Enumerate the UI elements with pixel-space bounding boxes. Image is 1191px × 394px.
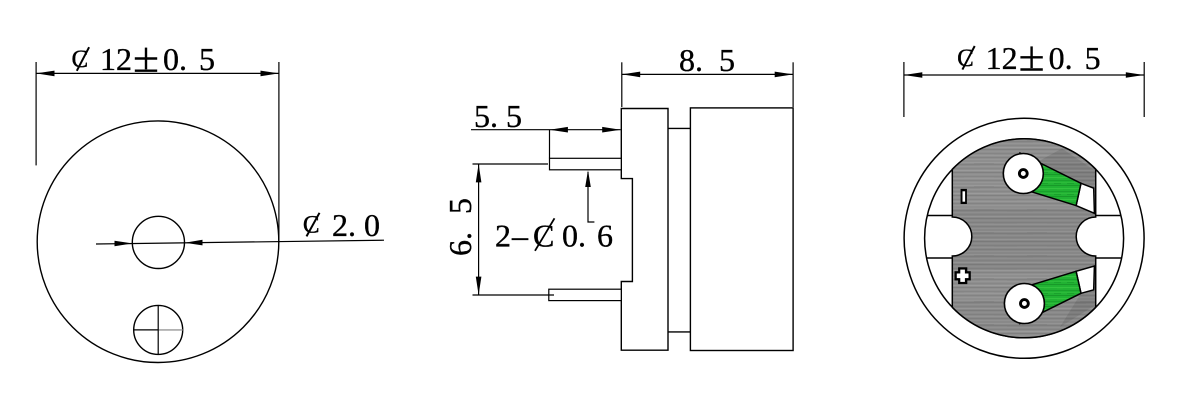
minus polarity mark: [961, 189, 967, 204]
front view outer case circle: [37, 121, 279, 363]
extension line left of dia12 back view: [903, 62, 905, 117]
svg-text:–: –: [511, 218, 529, 254]
leader line through center hole: [96, 240, 384, 244]
label dia 12 +/- 0.5 left view: [72, 41, 216, 77]
svg-text:12: 12: [100, 41, 132, 77]
dimension 8.5 extension line left: [621, 62, 623, 107]
back view inner rim circle: [925, 139, 1124, 338]
top green wire wedge: [1016, 153, 1081, 206]
arrowhead right of 5.5: [602, 127, 620, 133]
extension line right of dia12 back view: [1143, 62, 1145, 117]
dimension line 8.5: [622, 73, 793, 75]
left slot bottom line: [927, 257, 953, 259]
gray potting area with side slots: [952, 139, 1095, 338]
svg-text:8.: 8.: [679, 42, 703, 78]
arrowhead left of dia12 dimension: [36, 71, 54, 77]
extension line left of dia12 dimension: [35, 62, 37, 165]
label 8.5: [679, 42, 735, 78]
bottom green wire wedge: [1016, 271, 1081, 323]
main body rectangle: [690, 108, 793, 351]
arrowhead left of 5.5: [550, 127, 568, 133]
right slot bottom line: [1096, 257, 1122, 259]
leader arrowhead pointing right at hole left edge: [115, 241, 133, 246]
front center hole circle: [132, 216, 184, 268]
svg-text:5: 5: [442, 198, 478, 214]
top solder pad circle: [1003, 154, 1043, 194]
svg-text:5: 5: [506, 98, 522, 134]
arrowhead right of dia12 dimension: [261, 71, 279, 77]
svg-text:0: 0: [364, 207, 380, 243]
svg-text:5: 5: [199, 41, 215, 77]
label 5.5: [474, 98, 522, 134]
dimension line 5.5: [471, 129, 621, 131]
label dia 12 +/- 0.5 back view: [957, 40, 1101, 76]
sound hole circle with cross: [134, 305, 183, 354]
neck top line: [668, 127, 690, 129]
subtle darker band across middle of potting: [940, 208, 1108, 270]
arrowhead right of dia12 back view: [1126, 72, 1144, 78]
leader line from 2-dia0.6 to top pin: [588, 172, 594, 222]
arrowhead top of 6.5: [476, 164, 482, 182]
svg-text:C: C: [957, 45, 974, 72]
svg-text:5: 5: [1085, 40, 1101, 76]
svg-text:12: 12: [986, 40, 1018, 76]
leader arrowhead pointing up at pin: [585, 170, 591, 187]
svg-text:5.: 5.: [474, 98, 498, 134]
shading below bottom wedge: [1060, 288, 1096, 327]
leader arrowhead pointing left at hole right edge: [185, 240, 203, 246]
back view outer case circle: [904, 118, 1144, 358]
bottom pin rectangle: [549, 289, 622, 300]
extension line right of dia12 dimension: [278, 62, 280, 243]
arrowhead right of 8.5: [775, 72, 793, 78]
bottom wedge white tip: [1076, 266, 1094, 293]
svg-text:C: C: [72, 46, 89, 73]
top pad center ring: [1019, 170, 1027, 178]
arrowhead bottom of 6.5: [476, 277, 482, 295]
dimension 6.5 top extension line: [473, 163, 549, 165]
label dia 2.0: [303, 207, 380, 243]
arrowhead left of 8.5: [622, 72, 640, 78]
svg-text:0.: 0.: [1049, 40, 1073, 76]
extension line pin tip for 5.5: [549, 130, 551, 159]
shading above top wedge: [1038, 149, 1096, 189]
dimension 6.5 bottom extension line: [473, 294, 555, 296]
arrowhead left of dia12 back view: [904, 72, 922, 78]
label 2-dia0.6: [495, 218, 613, 254]
housing (front case) outline with recess: [621, 109, 668, 351]
bottom solder pad circle: [1004, 284, 1044, 324]
svg-text:0.: 0.: [163, 41, 187, 77]
plus polarity mark: [955, 267, 971, 284]
top pin rectangle: [550, 158, 622, 170]
svg-text:6: 6: [597, 218, 613, 254]
left slot top line: [927, 215, 952, 217]
dimension line dia12 back view: [904, 74, 1144, 76]
svg-text:6.: 6.: [442, 232, 478, 256]
neck bottom line: [668, 331, 690, 333]
dimension line dia12 left view: [36, 72, 279, 74]
dimension line 6.5 vertical: [478, 164, 480, 295]
sound hole cross vertical line: [157, 305, 159, 354]
bottom pad center ring: [1021, 300, 1029, 308]
svg-text:2: 2: [495, 218, 511, 254]
svg-text:5: 5: [719, 42, 735, 78]
right slot top line: [1096, 215, 1121, 217]
svg-text:0.: 0.: [562, 218, 586, 254]
svg-text:2.: 2.: [332, 207, 356, 243]
top wedge white tip: [1076, 183, 1094, 213]
sound hole cross horizontal line: [134, 329, 159, 331]
label 6.5 rotated: [442, 198, 478, 256]
dimension 8.5 extension line right: [792, 62, 794, 107]
